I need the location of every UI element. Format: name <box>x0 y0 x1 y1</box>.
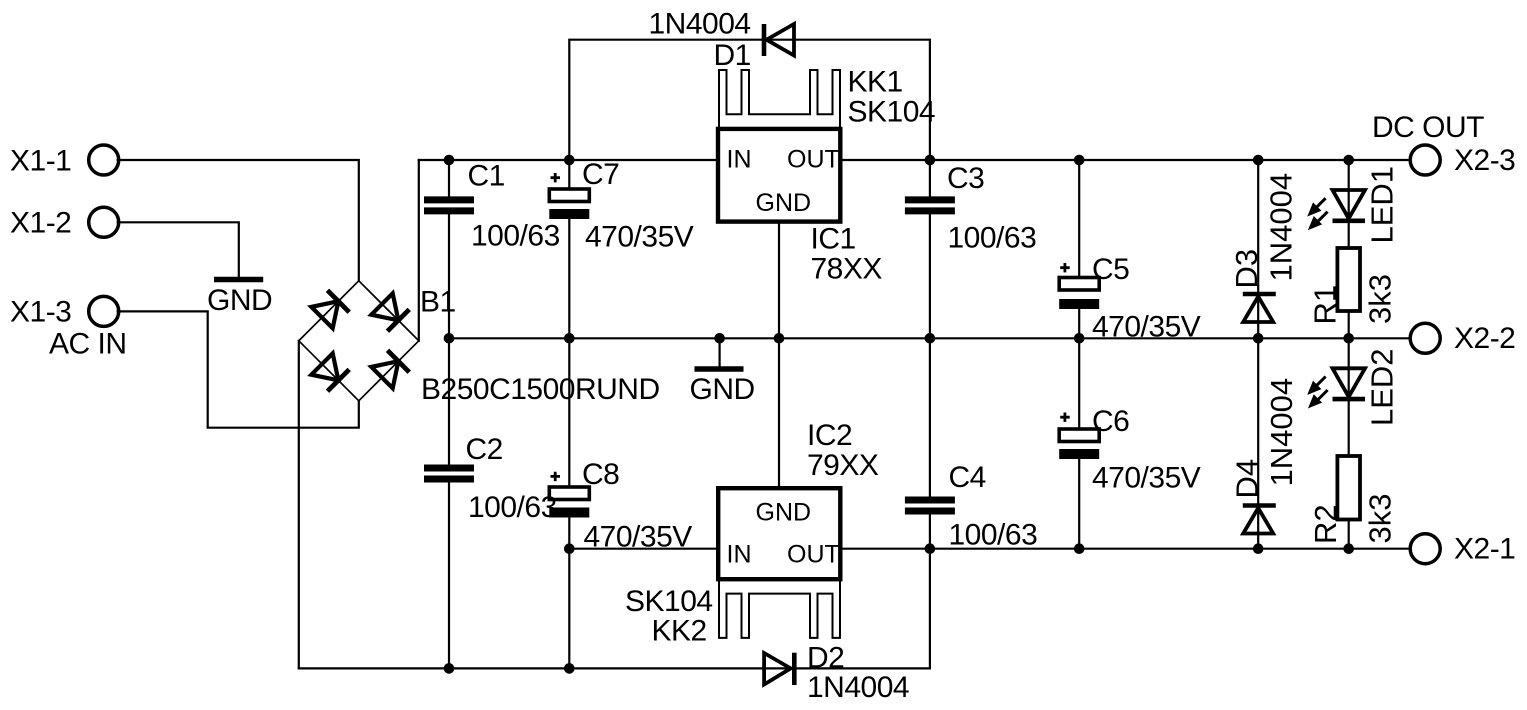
svg-text:D1: D1 <box>714 39 751 72</box>
svg-text:79XX: 79XX <box>807 449 879 482</box>
svg-text:3k3: 3k3 <box>1363 494 1398 544</box>
svg-text:D3: D3 <box>1229 249 1264 289</box>
svg-text:1N4004: 1N4004 <box>649 8 751 41</box>
ground symbol GND at mid rail <box>695 366 744 372</box>
regulator IC2 box <box>718 488 840 579</box>
diode D1 <box>764 24 794 56</box>
capacitor C6 electrolytic <box>1059 413 1099 460</box>
wire R1 bottom to mid rail <box>1348 311 1350 338</box>
svg-text:B250C1500RUND: B250C1500RUND <box>421 373 660 406</box>
svg-text:100/63: 100/63 <box>471 220 560 253</box>
wire C3 column upper <box>929 160 931 196</box>
svg-text:IC2: IC2 <box>807 419 852 452</box>
svg-text:3k3: 3k3 <box>1363 274 1398 324</box>
svg-text:470/35V: 470/35V <box>584 521 693 554</box>
wire LED1 to R1 top <box>1348 160 1350 248</box>
wire D3 D4 column <box>1257 160 1259 549</box>
resistor R2 <box>1337 456 1360 520</box>
bridge B1 diode bottom-left <box>311 353 349 391</box>
bridge B1 diode top-left <box>311 290 349 328</box>
junction top rail at C3 <box>925 155 936 166</box>
junction mid rail at D3 <box>1253 333 1264 344</box>
svg-text:1N4004: 1N4004 <box>1264 378 1299 487</box>
wire D1 bypass loop <box>569 40 930 160</box>
capacitor C4 plates <box>905 500 955 511</box>
capacitor C7 electrolytic <box>549 173 589 219</box>
regulator IC1 box <box>718 129 840 222</box>
svg-text:1N4004: 1N4004 <box>807 671 909 704</box>
pad X1-3 <box>89 296 119 326</box>
svg-text:X2-2: X2-2 <box>1454 322 1515 355</box>
capacitor C2 plates <box>424 468 474 479</box>
junction bottom bus at C8 <box>564 663 575 674</box>
svg-text:100/63: 100/63 <box>468 491 557 524</box>
capacitor C5 electrolytic <box>1059 263 1099 309</box>
diode D3 <box>1243 294 1276 322</box>
svg-text:LED1: LED1 <box>1365 166 1400 244</box>
diode D2 <box>764 653 794 685</box>
svg-text:GND: GND <box>690 373 755 406</box>
svg-text:KK1: KK1 <box>848 66 903 99</box>
capacitor C3 plates <box>905 200 955 211</box>
bridge B1 diode bottom-right <box>371 350 409 388</box>
svg-text:DC OUT: DC OUT <box>1372 111 1484 144</box>
svg-text:X2-1: X2-1 <box>1454 533 1515 566</box>
wire C1-C2 column middle <box>448 214 450 464</box>
wire LED2 to R2 top <box>1348 338 1350 456</box>
junction mid rail at GND symbol <box>714 333 725 344</box>
wire bridge minus output down to bottom bus <box>298 341 300 669</box>
svg-text:C5: C5 <box>1092 253 1129 286</box>
svg-text:SK104: SK104 <box>625 585 713 618</box>
resistor R1 <box>1337 248 1360 311</box>
junction OUT line at C4 <box>925 543 936 554</box>
svg-text:D4: D4 <box>1230 459 1265 499</box>
svg-text:KK2: KK2 <box>652 615 707 648</box>
wire top rail left segment to IC1 IN <box>419 159 718 161</box>
svg-text:R2: R2 <box>1308 504 1343 544</box>
wire IC2 OUT line to X2-1 <box>840 548 1411 550</box>
pad X1-1 <box>89 145 119 175</box>
svg-text:B1: B1 <box>420 286 456 319</box>
svg-text:C3: C3 <box>947 162 984 195</box>
svg-text:470/35V: 470/35V <box>585 221 694 254</box>
wire C5 column upper <box>1078 160 1080 278</box>
wire C2 column lower <box>448 483 450 669</box>
pad X2-1 <box>1410 534 1440 564</box>
wire X1-1 to bridge top vertex <box>118 160 359 281</box>
junction mid rail at C1 <box>444 333 455 344</box>
wire bottom bus with D2 to C4 column <box>299 549 930 669</box>
svg-text:470/35V: 470/35V <box>1092 311 1201 344</box>
svg-text:470/35V: 470/35V <box>1092 462 1201 495</box>
junction mid rail at C7 <box>564 333 575 344</box>
svg-text:D2: D2 <box>807 642 844 675</box>
wire C5-C6 column middle <box>1078 309 1080 430</box>
junction top rail at C7 <box>564 155 575 166</box>
heatsink KK1 <box>719 70 840 129</box>
svg-text:SK104: SK104 <box>848 96 936 129</box>
svg-text:X2-3: X2-3 <box>1454 144 1515 177</box>
wire C3-C4 column middle <box>929 214 931 496</box>
junction mid rail at C5 <box>1074 333 1085 344</box>
junction bottom bus at C2 <box>444 663 455 674</box>
wire X1-2 to GND symbol <box>118 222 239 276</box>
svg-text:R1: R1 <box>1308 285 1343 325</box>
svg-text:GND: GND <box>756 499 812 527</box>
junction mid rail at LED1 <box>1343 333 1354 344</box>
svg-text:GND: GND <box>756 189 812 217</box>
junction OUT line at R2 <box>1343 543 1354 554</box>
svg-text:C7: C7 <box>582 158 619 191</box>
svg-text:GND: GND <box>207 284 272 317</box>
svg-text:OUT: OUT <box>787 541 840 569</box>
wire C8 column lower <box>568 518 570 669</box>
svg-text:X1-2: X1-2 <box>10 207 71 240</box>
LED1 <box>1309 190 1365 229</box>
wire GND symbol stub on mid rail <box>718 338 720 366</box>
svg-text:X1-3: X1-3 <box>10 296 71 329</box>
junction top rail at C1 <box>444 155 455 166</box>
wire C6 column lower <box>1078 460 1080 549</box>
svg-text:C4: C4 <box>949 461 986 494</box>
junction top rail at D3 <box>1253 155 1264 166</box>
wire top rail right segment IC1 OUT to X2-3 <box>840 159 1411 161</box>
wire C7 column upper <box>568 160 570 189</box>
junction OUT line at C6 <box>1074 543 1085 554</box>
svg-text:X1-1: X1-1 <box>10 145 71 178</box>
junction top rail at C5 <box>1074 155 1085 166</box>
pad X2-2 <box>1410 323 1440 353</box>
bridge B1 diode top-right <box>371 293 409 331</box>
svg-text:C2: C2 <box>466 433 503 466</box>
capacitor C1 plates <box>424 200 474 211</box>
svg-text:LED2: LED2 <box>1365 348 1400 426</box>
junction mid rail at IC GND stub <box>774 333 785 344</box>
wire C7-C8 column middle <box>568 219 570 487</box>
svg-text:C1: C1 <box>468 160 505 193</box>
LED2 <box>1309 368 1365 407</box>
svg-text:IN: IN <box>727 541 752 569</box>
wire C4 column lower <box>929 515 931 549</box>
junction IC2 IN line at C8 <box>564 543 575 554</box>
bridge rectifier B1 diamond outline <box>299 281 419 401</box>
svg-text:100/63: 100/63 <box>948 222 1037 255</box>
capacitor C8 electrolytic <box>549 472 589 518</box>
svg-text:OUT: OUT <box>787 146 840 174</box>
wire IC1 GND pin to mid rail to IC2 GND pin <box>778 222 780 489</box>
junction mid rail at C3 <box>925 333 936 344</box>
wire C1 column upper <box>448 160 450 196</box>
svg-text:78XX: 78XX <box>811 253 883 286</box>
heatsink KK2 <box>719 579 840 638</box>
wire X1-3 to bridge bottom vertex <box>118 311 359 427</box>
wire bridge plus output up to top rail <box>418 160 420 341</box>
wire R2 bottom to X2-1 line <box>1348 520 1350 549</box>
svg-text:AC IN: AC IN <box>49 328 127 361</box>
pad X2-3 <box>1410 145 1440 175</box>
wire GND mid rail to X2-2 <box>449 337 1411 339</box>
svg-text:IC1: IC1 <box>811 223 856 256</box>
pad X1-2 <box>89 207 119 237</box>
svg-text:C6: C6 <box>1092 405 1129 438</box>
svg-text:1N4004: 1N4004 <box>1264 173 1299 282</box>
junction OUT line at D4 <box>1253 543 1264 554</box>
junction top rail at LED1 <box>1343 155 1354 166</box>
svg-text:C8: C8 <box>582 458 619 491</box>
svg-text:100/63: 100/63 <box>949 519 1038 552</box>
diode D4 <box>1243 506 1276 534</box>
wire IC2 IN line <box>569 548 718 550</box>
svg-text:IN: IN <box>727 146 752 174</box>
ground symbol GND at X1-2 <box>214 277 263 283</box>
